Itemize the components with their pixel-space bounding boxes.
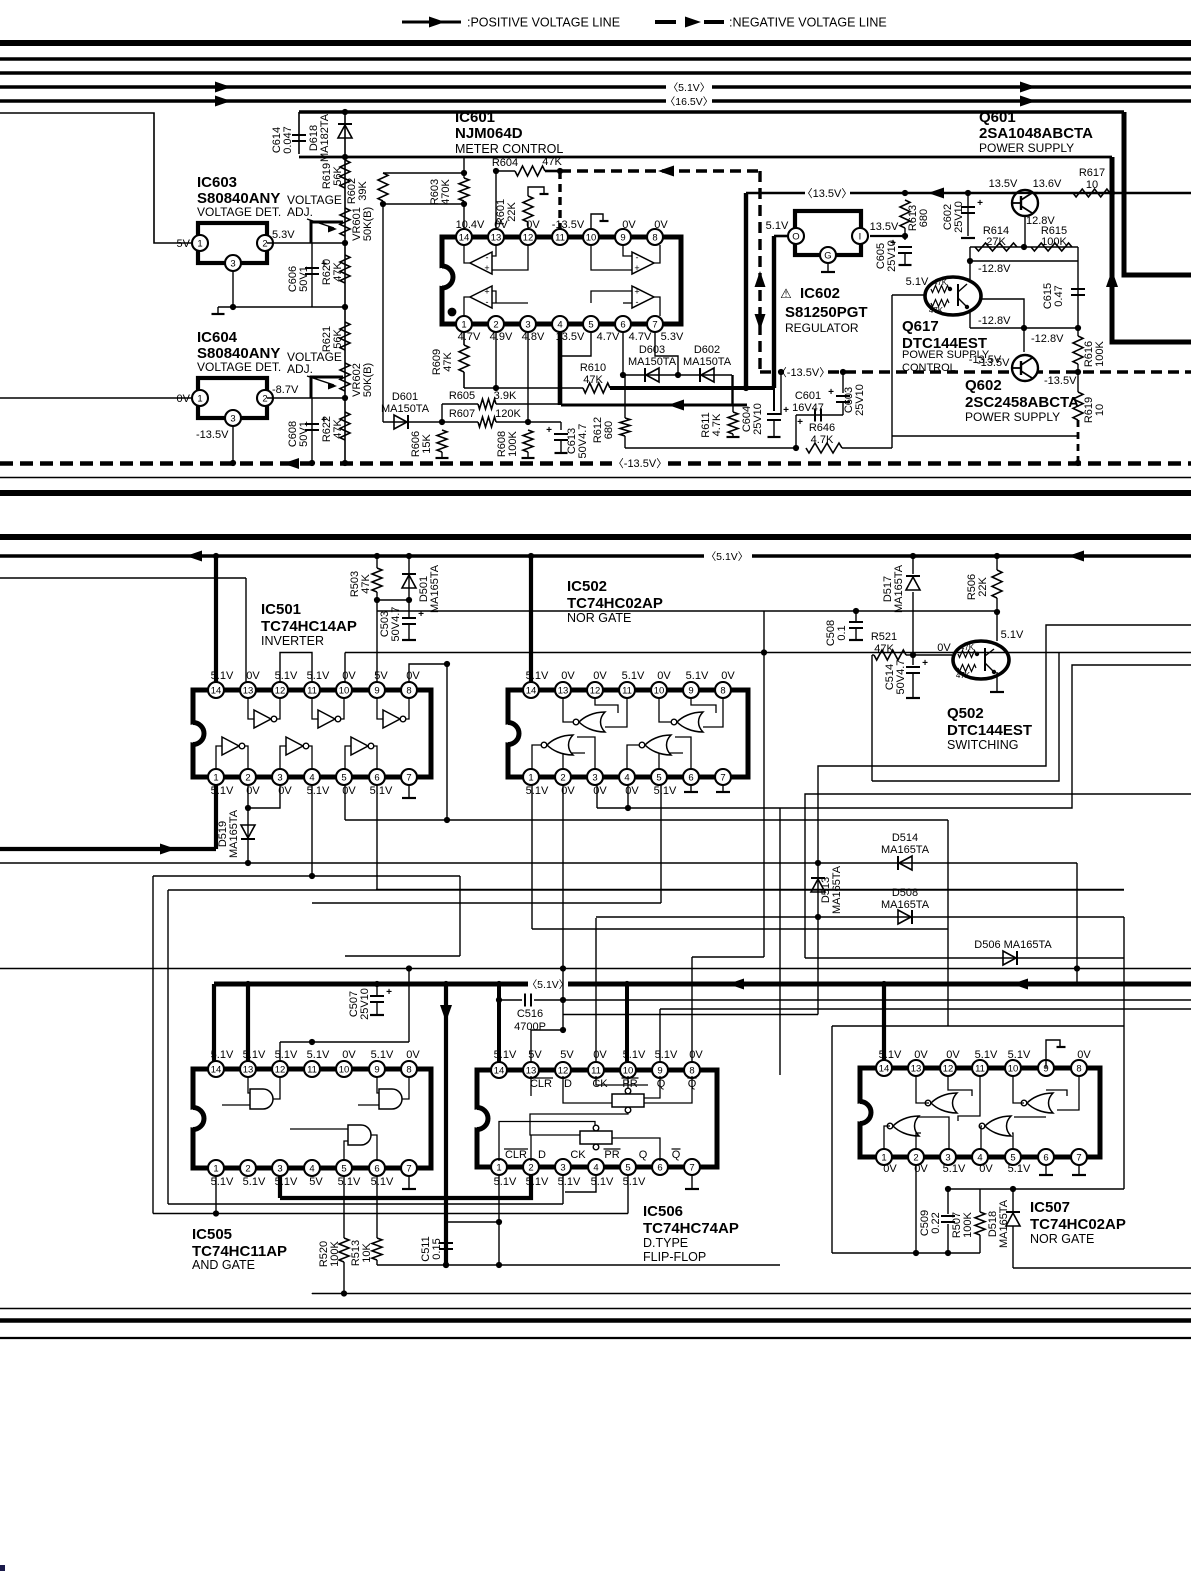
svg-text:IC507: IC507 [1030, 1199, 1070, 1216]
svg-text:10: 10 [1086, 179, 1098, 191]
svg-text:9: 9 [620, 233, 625, 244]
svg-text:4.7K: 4.7K [811, 434, 834, 446]
svg-text:R607: R607 [449, 408, 475, 420]
svg-text:+: + [321, 415, 327, 426]
svg-text:14: 14 [494, 1066, 505, 1077]
svg-text:-12.8V: -12.8V [978, 315, 1011, 327]
svg-text:Q: Q [672, 1149, 681, 1161]
svg-text:MA165TA: MA165TA [228, 809, 240, 858]
svg-text:〈5.1V〉: 〈5.1V〉 [706, 551, 749, 563]
svg-text:〈16.5V〉: 〈16.5V〉 [665, 96, 713, 108]
svg-text:5V: 5V [374, 670, 388, 682]
svg-text:4.8V: 4.8V [522, 331, 545, 343]
svg-text:13.5V: 13.5V [870, 221, 899, 233]
svg-text:〈5.1V〉: 〈5.1V〉 [668, 82, 711, 94]
svg-text:MA165TA: MA165TA [429, 564, 441, 613]
svg-text:0V: 0V [177, 393, 191, 405]
svg-text:5.1V: 5.1V [526, 1176, 549, 1188]
svg-text:NOR GATE: NOR GATE [1030, 1232, 1094, 1246]
svg-text:Q502: Q502 [947, 705, 984, 722]
svg-text:4: 4 [557, 320, 562, 331]
svg-text:IC601: IC601 [455, 109, 495, 126]
svg-text:3: 3 [277, 773, 282, 784]
svg-text:5.1V: 5.1V [211, 1176, 234, 1188]
svg-text:25V10: 25V10 [953, 201, 965, 233]
svg-text:METER CONTROL: METER CONTROL [455, 142, 563, 156]
svg-text:INVERTER: INVERTER [261, 634, 324, 648]
svg-text:3: 3 [277, 1164, 282, 1175]
svg-text:5.1V: 5.1V [655, 1049, 678, 1061]
svg-text:MA150TA: MA150TA [628, 356, 677, 368]
svg-text:IC604: IC604 [197, 329, 238, 346]
svg-text:I: I [859, 232, 862, 243]
svg-text:0V: 0V [689, 1049, 703, 1061]
svg-text:5.1V: 5.1V [275, 670, 298, 682]
svg-text:C601: C601 [795, 390, 821, 402]
svg-text:10: 10 [1094, 404, 1106, 416]
svg-text:Q: Q [657, 1078, 666, 1090]
svg-text:ADJ.: ADJ. [287, 362, 313, 376]
svg-text:Q617: Q617 [902, 318, 939, 335]
svg-text:8: 8 [652, 233, 657, 244]
svg-text:5.1V: 5.1V [338, 1176, 361, 1188]
svg-text:14: 14 [211, 1065, 222, 1076]
svg-text:5.1V: 5.1V [211, 1049, 234, 1061]
svg-text:1: 1 [496, 1163, 501, 1174]
svg-text:14: 14 [459, 233, 470, 244]
svg-text:IC502: IC502 [567, 578, 607, 595]
svg-text:D506 MA165TA: D506 MA165TA [974, 939, 1052, 951]
svg-text:50V4.7: 50V4.7 [895, 660, 907, 695]
svg-text:10: 10 [339, 686, 350, 697]
svg-text:5.1V: 5.1V [1008, 1049, 1031, 1061]
svg-text:0V: 0V [561, 670, 575, 682]
svg-text:CK: CK [570, 1149, 586, 1161]
svg-text:680: 680 [918, 209, 930, 227]
svg-text:6: 6 [620, 320, 625, 331]
svg-text:47K: 47K [929, 306, 944, 315]
svg-text:25V10: 25V10 [854, 384, 866, 416]
svg-text:5.1V: 5.1V [906, 276, 929, 288]
svg-text:R617: R617 [1079, 167, 1105, 179]
svg-text:5: 5 [625, 1163, 630, 1174]
svg-text:R604: R604 [492, 157, 518, 169]
svg-text:2: 2 [493, 320, 498, 331]
svg-text:5.1V: 5.1V [975, 1049, 998, 1061]
svg-text:47K: 47K [332, 419, 344, 439]
svg-text:25V10: 25V10 [886, 240, 898, 272]
svg-text:〈-13.5V〉: 〈-13.5V〉 [776, 366, 830, 379]
svg-text:5.1V: 5.1V [243, 1049, 266, 1061]
svg-text:VOLTAGE DET.: VOLTAGE DET. [197, 205, 281, 219]
svg-text:13.5V: 13.5V [989, 178, 1018, 190]
svg-text:11: 11 [591, 1066, 601, 1077]
svg-text:4: 4 [309, 1164, 314, 1175]
svg-text:8: 8 [689, 1066, 694, 1077]
svg-text:15K: 15K [421, 434, 433, 454]
svg-text:〈-13.5V〉: 〈-13.5V〉 [613, 457, 667, 470]
svg-text:1: 1 [197, 239, 202, 250]
svg-text:6: 6 [374, 773, 379, 784]
svg-text:25V10: 25V10 [752, 403, 764, 435]
svg-text:R610: R610 [580, 362, 606, 374]
svg-text:CLR: CLR [530, 1078, 552, 1090]
svg-text:MA165TA: MA165TA [998, 1199, 1010, 1248]
svg-text:7: 7 [1076, 1153, 1081, 1164]
svg-text:4: 4 [624, 773, 629, 784]
svg-text:MA165TA: MA165TA [881, 899, 930, 911]
svg-text:0V: 0V [883, 1163, 897, 1175]
svg-text:6: 6 [657, 1163, 662, 1174]
svg-text:TC74HC02AP: TC74HC02AP [1030, 1216, 1126, 1233]
svg-text:5: 5 [656, 773, 661, 784]
svg-text:100K: 100K [1041, 236, 1067, 248]
svg-text:1: 1 [197, 394, 202, 405]
svg-text:VOLTAGE DET.: VOLTAGE DET. [197, 360, 281, 374]
svg-text:9: 9 [374, 686, 379, 697]
svg-text:+: + [634, 287, 639, 297]
svg-text:5.1V: 5.1V [558, 1176, 581, 1188]
svg-text:-: - [486, 253, 489, 263]
svg-text:3: 3 [560, 1163, 565, 1174]
svg-text:10: 10 [623, 1066, 634, 1077]
svg-text:+: + [922, 658, 928, 669]
svg-text:4.7V: 4.7V [597, 331, 620, 343]
svg-text:47K: 47K [442, 352, 454, 372]
svg-text:1: 1 [213, 1164, 218, 1175]
svg-text:MA165TA: MA165TA [881, 844, 930, 856]
svg-text:14: 14 [526, 686, 537, 697]
svg-text:4.7V: 4.7V [458, 331, 481, 343]
svg-text:0V: 0V [593, 1049, 607, 1061]
svg-text:7: 7 [406, 773, 411, 784]
svg-text:+: + [386, 987, 392, 998]
svg-text:〈5.1V〉: 〈5.1V〉 [527, 979, 570, 991]
svg-text:8: 8 [406, 686, 411, 697]
svg-text:7: 7 [689, 1163, 694, 1174]
svg-text:0V: 0V [914, 1049, 928, 1061]
svg-text:C516: C516 [517, 1008, 543, 1020]
svg-text:5.1V: 5.1V [1001, 629, 1024, 641]
svg-text:1: 1 [213, 773, 218, 784]
svg-text:56K: 56K [332, 166, 344, 186]
svg-text:11: 11 [307, 1065, 317, 1076]
svg-text:G: G [824, 251, 831, 262]
svg-text:-: - [636, 297, 639, 307]
svg-text:4: 4 [309, 773, 314, 784]
svg-text:5.1V: 5.1V [494, 1176, 517, 1188]
svg-text:47K: 47K [332, 262, 344, 282]
svg-text:0.22: 0.22 [930, 1212, 942, 1233]
svg-text:12: 12 [275, 686, 286, 697]
svg-text:5: 5 [1010, 1153, 1015, 1164]
svg-text:5.1V: 5.1V [307, 785, 330, 797]
svg-text:5.1V: 5.1V [686, 670, 709, 682]
svg-text:POWER SUPPLY: POWER SUPPLY [979, 141, 1074, 155]
svg-text:0V: 0V [526, 219, 540, 231]
svg-text:7: 7 [406, 1164, 411, 1175]
svg-text:0V: 0V [946, 1049, 960, 1061]
svg-text:47K: 47K [960, 643, 975, 652]
svg-text:5.1V: 5.1V [494, 1049, 517, 1061]
svg-text:100K: 100K [962, 1211, 974, 1237]
svg-text:CK: CK [592, 1078, 608, 1090]
svg-text:IC506: IC506 [643, 1203, 683, 1220]
svg-text:+: + [783, 405, 789, 416]
svg-text:470K: 470K [440, 178, 452, 204]
svg-text:5: 5 [588, 320, 593, 331]
svg-text:D: D [538, 1149, 546, 1161]
svg-text:IC505: IC505 [192, 1226, 232, 1243]
svg-text:MA165TA: MA165TA [893, 564, 905, 613]
svg-text:12: 12 [943, 1064, 954, 1075]
svg-text:47K: 47K [583, 374, 603, 386]
svg-text:MA182TA: MA182TA [319, 113, 331, 162]
svg-text:8: 8 [406, 1065, 411, 1076]
svg-text:TC74HC14AP: TC74HC14AP [261, 618, 357, 635]
svg-text:+: + [977, 198, 983, 209]
svg-text:Q602: Q602 [965, 377, 1002, 394]
svg-text:2: 2 [262, 239, 267, 250]
svg-text:TC74HC74AP: TC74HC74AP [643, 1220, 739, 1237]
svg-text:Q: Q [639, 1149, 648, 1161]
svg-text:5.1V: 5.1V [307, 1049, 330, 1061]
svg-text:4: 4 [977, 1153, 982, 1164]
svg-text:-12.8V: -12.8V [978, 263, 1011, 275]
svg-text:22K: 22K [506, 202, 518, 222]
svg-text:6: 6 [374, 1164, 379, 1175]
svg-text:10: 10 [654, 686, 665, 697]
svg-text:47K: 47K [933, 278, 948, 287]
svg-text:-: - [636, 253, 639, 263]
svg-text:R521: R521 [871, 631, 897, 643]
svg-text:AND GATE: AND GATE [192, 1258, 255, 1272]
svg-text:13: 13 [526, 1066, 537, 1077]
svg-text:5.1V: 5.1V [371, 1049, 394, 1061]
svg-text:R605: R605 [449, 390, 475, 402]
svg-text:4: 4 [593, 1163, 598, 1174]
svg-text:120K: 120K [495, 408, 521, 420]
svg-text:5V: 5V [177, 238, 191, 250]
svg-text:13.6V: 13.6V [1033, 178, 1062, 190]
svg-text:13: 13 [558, 686, 569, 697]
svg-text:50K(B): 50K(B) [362, 207, 374, 241]
svg-text:10: 10 [339, 1065, 350, 1076]
svg-text:1: 1 [528, 773, 533, 784]
svg-text:D601: D601 [392, 391, 418, 403]
svg-text:2: 2 [245, 773, 250, 784]
svg-text:16V47: 16V47 [792, 402, 824, 414]
svg-text:14: 14 [879, 1064, 890, 1075]
svg-text:8: 8 [1076, 1064, 1081, 1075]
svg-text:2: 2 [528, 1163, 533, 1174]
svg-text:5V: 5V [560, 1049, 574, 1061]
svg-text:680: 680 [603, 421, 615, 439]
svg-text:MA165TA: MA165TA [831, 865, 843, 914]
svg-text:0V: 0V [494, 219, 508, 231]
svg-text:1: 1 [461, 320, 466, 331]
svg-text:-13.5V: -13.5V [969, 354, 1002, 366]
svg-text:0V: 0V [979, 1163, 993, 1175]
svg-text:5.1V: 5.1V [370, 785, 393, 797]
svg-text:7: 7 [652, 320, 657, 331]
svg-text:9: 9 [688, 686, 693, 697]
svg-text:11: 11 [622, 686, 632, 697]
svg-text:13: 13 [491, 233, 502, 244]
svg-text:47K: 47K [956, 671, 971, 680]
svg-text:4700P: 4700P [514, 1021, 546, 1033]
svg-text:22K: 22K [977, 577, 989, 597]
svg-text:D603: D603 [639, 344, 665, 356]
svg-text:1: 1 [881, 1153, 886, 1164]
svg-text:50V4.7: 50V4.7 [390, 607, 402, 642]
svg-text:12: 12 [590, 686, 601, 697]
svg-text:5.1V: 5.1V [1008, 1163, 1031, 1175]
svg-text:0V: 0V [721, 670, 735, 682]
svg-text:10K: 10K [361, 1243, 373, 1263]
svg-text:IC501: IC501 [261, 601, 301, 618]
svg-text:5.1V: 5.1V [243, 1176, 266, 1188]
svg-text:8: 8 [720, 686, 725, 697]
svg-text:+: + [828, 387, 834, 398]
svg-text:13: 13 [243, 686, 254, 697]
svg-text:-8.7V: -8.7V [272, 384, 299, 396]
svg-text:IC603: IC603 [197, 174, 237, 191]
svg-text:+: + [634, 263, 639, 273]
svg-text:11: 11 [555, 233, 565, 244]
svg-text:0V: 0V [1077, 1049, 1091, 1061]
svg-text:⚠: ⚠ [780, 286, 792, 301]
svg-text:CLR: CLR [505, 1149, 527, 1161]
svg-text:47K: 47K [542, 156, 562, 168]
svg-text:0.1: 0.1 [836, 625, 848, 640]
svg-text:3: 3 [945, 1153, 950, 1164]
svg-text:+: + [484, 287, 489, 297]
svg-text:27K: 27K [986, 236, 1006, 248]
svg-text:+: + [484, 263, 489, 273]
svg-text:NOR GATE: NOR GATE [567, 611, 631, 625]
svg-text:+: + [321, 259, 327, 270]
svg-text:11: 11 [975, 1064, 985, 1075]
svg-text:100K: 100K [329, 1240, 341, 1266]
svg-text:50V1: 50V1 [298, 266, 310, 292]
svg-text:0V: 0V [342, 1049, 356, 1061]
svg-text:SWITCHING: SWITCHING [947, 738, 1019, 752]
svg-text:2SA1048ABCTA: 2SA1048ABCTA [979, 125, 1093, 142]
svg-text:DTC144EST: DTC144EST [947, 722, 1032, 739]
svg-text:10: 10 [586, 233, 597, 244]
svg-text:100K: 100K [1094, 340, 1106, 366]
svg-text:+: + [797, 417, 803, 428]
svg-text:4.7K: 4.7K [711, 413, 723, 436]
svg-text:0.15: 0.15 [431, 1238, 443, 1259]
svg-text:IC602: IC602 [800, 285, 840, 302]
svg-text:5.1V: 5.1V [623, 1176, 646, 1188]
svg-text:O: O [792, 232, 799, 243]
svg-text::NEGATIVE VOLTAGE LINE: :NEGATIVE VOLTAGE LINE [729, 16, 887, 30]
svg-text:0V: 0V [406, 1049, 420, 1061]
svg-text:D: D [564, 1078, 572, 1090]
svg-text:0V: 0V [246, 670, 260, 682]
svg-text:11: 11 [307, 686, 317, 697]
svg-text:FLIP-FLOP: FLIP-FLOP [643, 1250, 706, 1264]
svg-text:12: 12 [275, 1065, 286, 1076]
svg-text:MA150TA: MA150TA [683, 356, 732, 368]
svg-text:〈13.5V〉: 〈13.5V〉 [802, 187, 853, 200]
svg-text:7: 7 [720, 773, 725, 784]
svg-text:5: 5 [341, 773, 346, 784]
svg-text:3: 3 [592, 773, 597, 784]
svg-text:13: 13 [243, 1065, 254, 1076]
svg-text:-13.5V: -13.5V [552, 219, 585, 231]
svg-text::POSITIVE VOLTAGE LINE: :POSITIVE VOLTAGE LINE [467, 16, 620, 30]
svg-text:D602: D602 [694, 344, 720, 356]
svg-text:3: 3 [230, 414, 235, 425]
svg-text:PR: PR [604, 1149, 619, 1161]
svg-text:5.1V: 5.1V [275, 1049, 298, 1061]
svg-text:5.1V: 5.1V [211, 670, 234, 682]
svg-text:0V: 0V [654, 219, 668, 231]
svg-text:47K: 47K [360, 574, 372, 594]
svg-text:5.1V: 5.1V [766, 220, 789, 232]
svg-text:2: 2 [913, 1153, 918, 1164]
svg-text:2: 2 [262, 394, 267, 405]
svg-text:0.47: 0.47 [1053, 285, 1065, 306]
svg-text:TC74HC02AP: TC74HC02AP [567, 595, 663, 612]
svg-text:12: 12 [523, 233, 534, 244]
svg-text:5: 5 [341, 1164, 346, 1175]
svg-text:3: 3 [230, 259, 235, 270]
svg-text:6: 6 [1043, 1153, 1048, 1164]
svg-text:5V: 5V [528, 1049, 542, 1061]
svg-text:5V: 5V [309, 1176, 323, 1188]
svg-text:56K: 56K [332, 329, 344, 349]
svg-text:2SC2458ABCTA: 2SC2458ABCTA [965, 394, 1079, 411]
svg-text:5.1V: 5.1V [622, 670, 645, 682]
svg-text:9: 9 [657, 1066, 662, 1077]
svg-text:50V1: 50V1 [298, 421, 310, 447]
svg-text:10.4V: 10.4V [456, 219, 485, 231]
svg-text:-13.5V: -13.5V [196, 429, 229, 441]
svg-text:D508: D508 [892, 887, 918, 899]
svg-text:13: 13 [911, 1064, 922, 1075]
svg-text:100K: 100K [507, 430, 519, 456]
svg-text:0V: 0V [622, 219, 636, 231]
svg-text:50K(B): 50K(B) [362, 363, 374, 397]
svg-text:10: 10 [1008, 1064, 1019, 1075]
svg-text:9: 9 [374, 1065, 379, 1076]
svg-text:3: 3 [525, 320, 530, 331]
svg-text:-13.5V: -13.5V [1044, 375, 1077, 387]
svg-text:25V10: 25V10 [359, 988, 371, 1020]
svg-text:0V: 0V [657, 670, 671, 682]
svg-text:Q601: Q601 [979, 109, 1016, 126]
svg-text:3.9K: 3.9K [494, 390, 517, 402]
svg-text:D514: D514 [892, 832, 918, 844]
svg-text:-12.8V: -12.8V [1031, 333, 1064, 345]
svg-text:6: 6 [688, 773, 693, 784]
svg-text:2: 2 [245, 1164, 250, 1175]
svg-text:5.1V: 5.1V [371, 1176, 394, 1188]
svg-text:MA150TA: MA150TA [381, 403, 430, 415]
svg-text:5.1V: 5.1V [591, 1176, 614, 1188]
svg-text:POWER SUPPLY: POWER SUPPLY [965, 410, 1060, 424]
svg-text:4.7V: 4.7V [629, 331, 652, 343]
svg-text:2: 2 [560, 773, 565, 784]
svg-text:R646: R646 [809, 422, 835, 434]
svg-text:-: - [486, 297, 489, 307]
svg-text:12: 12 [558, 1066, 569, 1077]
